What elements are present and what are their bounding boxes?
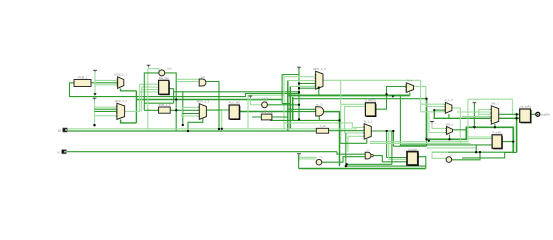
svg-text:MX_1: MX_1 (491, 102, 499, 106)
svg-text:Ts_1_2: Ts_1_2 (363, 120, 372, 124)
svg-text:MUX_1_3: MUX_1_3 (197, 100, 210, 104)
svg-text:U_REG2: U_REG2 (365, 99, 377, 103)
svg-text:(+): (+) (57, 152, 60, 154)
svg-text:LRG_1_2: LRG_1_2 (261, 110, 273, 114)
svg-text:ΔB: ΔB (58, 129, 62, 132)
svg-text:(clk): (clk) (167, 68, 172, 71)
svg-text:(s_1): (s_1) (316, 103, 322, 107)
svg-text:MUX_1_4: MUX_1_4 (313, 67, 326, 71)
svg-text:ALU_W2: ALU_W2 (229, 101, 241, 105)
svg-text:MUX_1_1: MUX_1_1 (114, 73, 127, 77)
svg-text:(s): (s) (320, 157, 323, 159)
svg-text:(or): (or) (201, 75, 205, 79)
svg-text:(clk2): (clk2) (262, 97, 268, 100)
svg-text:M_x: M_x (407, 79, 413, 83)
svg-text:F_w(R): F_w(R) (492, 131, 501, 135)
svg-text:T_d1: T_d1 (319, 124, 326, 128)
svg-text:A_1_3: A_1_3 (445, 98, 454, 102)
svg-text:out(R): out(R) (541, 113, 550, 117)
svg-text:RG_s: RG_s (446, 122, 454, 126)
svg-text:(v): (v) (450, 155, 453, 157)
svg-text:MUX_1_2: MUX_1_2 (115, 99, 128, 103)
svg-text:Cmd(s): Cmd(s) (408, 147, 417, 151)
svg-text:SUB_1_2: SUB_1_2 (158, 103, 170, 107)
svg-text:RG_W2: RG_W2 (159, 76, 169, 80)
svg-text:out_w(R): out_w(R) (519, 105, 530, 109)
svg-text:(c): (c) (367, 150, 370, 152)
svg-text:ROM_1: ROM_1 (78, 75, 88, 79)
